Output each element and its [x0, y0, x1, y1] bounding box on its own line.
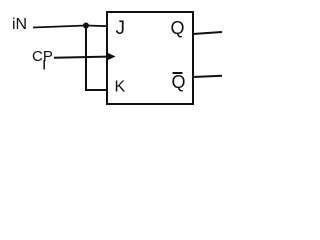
svg-text:Q: Q [171, 18, 185, 38]
svg-text:Q: Q [172, 72, 186, 92]
svg-text:J: J [116, 18, 126, 39]
svg-text:K: K [115, 79, 126, 96]
svg-text:iN: iN [12, 16, 27, 33]
svg-text:CP: CP [32, 48, 53, 65]
